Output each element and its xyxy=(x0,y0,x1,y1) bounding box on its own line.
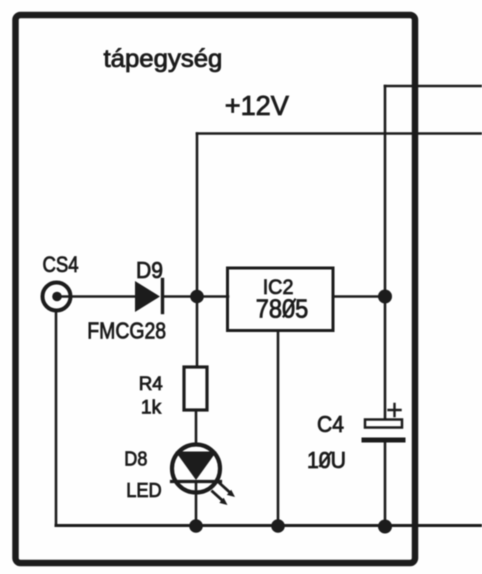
capacitor C4 (electrolytic) xyxy=(364,420,403,441)
wire: IC2 output to C4 bus xyxy=(333,295,385,298)
wire: IC2 ground pin down to rail xyxy=(277,331,280,527)
svg-text:1k: 1k xyxy=(141,396,162,418)
svg-text:FMCG28: FMCG28 xyxy=(87,317,166,344)
wire: top output line from C4 node to right edge xyxy=(385,85,482,88)
connector CS4 (jack symbol) xyxy=(43,283,71,311)
op-amp / regulator IC2 box xyxy=(228,268,334,331)
node: IC2 ground on rail xyxy=(271,519,285,533)
IC2 part number 7805 xyxy=(256,296,309,324)
svg-text:+12V: +12V xyxy=(225,90,290,121)
svg-text:D8: D8 xyxy=(124,449,147,471)
wire: bottom ground rail xyxy=(56,524,482,527)
svg-text:R4: R4 xyxy=(139,374,163,395)
svg-text:D9: D9 xyxy=(136,257,163,283)
svg-text:C4: C4 xyxy=(317,411,344,437)
enclosure box (tápegység unit outline) xyxy=(16,15,416,563)
wire: node down to R4 xyxy=(196,297,199,368)
capacitor C4 polarity + xyxy=(389,404,401,416)
wire: CS4 center pin to D9 anode xyxy=(59,295,135,298)
wire: LED cathode down to ground rail xyxy=(195,484,198,526)
wire: C4 minus plate to rail xyxy=(384,443,387,527)
svg-text:tápegység: tápegység xyxy=(104,45,223,73)
node: LED cathode on rail xyxy=(189,519,203,533)
svg-text:CS4: CS4 xyxy=(43,254,79,278)
svg-text:LED: LED xyxy=(126,479,161,502)
resistor R4 xyxy=(184,367,207,410)
node: junction IC2 output / C4 xyxy=(378,290,392,304)
node: C4 on rail xyxy=(378,520,392,534)
wire: D9 cathode to IC2 input xyxy=(163,295,228,298)
wire: CS4 sleeve down to ground rail xyxy=(55,311,58,526)
wire: +12V rail horizontal to right edge xyxy=(197,132,482,135)
svg-text:7805: 7805 xyxy=(256,296,309,324)
node: junction at D9 cathode / +12V / R4 xyxy=(190,290,204,304)
diode D9 xyxy=(135,280,163,313)
wire: +12V vertical down to D9 cathode node xyxy=(196,134,199,297)
wire: R4 to LED anode xyxy=(195,410,198,444)
capacitor C4 value 10U xyxy=(307,447,346,473)
svg-text:10U: 10U xyxy=(307,447,346,473)
LED D8 xyxy=(172,445,236,506)
wire: vertical C4/output bus x=385 xyxy=(384,86,387,419)
